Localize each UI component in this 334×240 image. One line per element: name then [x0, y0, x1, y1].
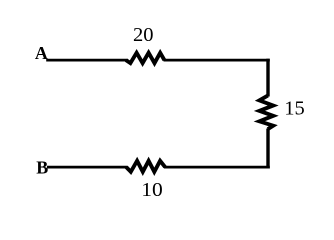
- wire vertical lower (R2 to bottom corner): [266, 129, 269, 169]
- resistor R3 (10 ohm): [126, 161, 165, 172]
- svg-text:B: B: [36, 157, 48, 177]
- svg-text:15: 15: [284, 98, 305, 120]
- svg-text:A: A: [35, 43, 48, 63]
- wire vertical upper (corner to R2): [266, 59, 269, 97]
- wire top-left (A to R1): [46, 59, 127, 62]
- resistor R2 (15 ohm, vertical): [259, 96, 273, 130]
- svg-text:20: 20: [133, 24, 154, 46]
- wire top-right (R1 to corner): [164, 59, 270, 62]
- svg-text:10: 10: [141, 179, 163, 201]
- resistor R1 (20 ohm): [126, 53, 164, 63]
- wire bottom-left (B to R3): [47, 166, 128, 169]
- wire bottom-right (corner to R3): [164, 166, 270, 169]
